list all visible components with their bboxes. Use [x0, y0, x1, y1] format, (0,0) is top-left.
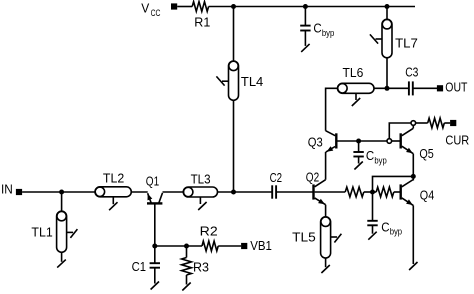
transistor Q5 — [401, 128, 434, 161]
node open circle Q5 collector — [411, 121, 416, 126]
svg-text:C1: C1 — [132, 259, 146, 274]
svg-text:IN: IN — [1, 182, 13, 197]
svg-text:C: C — [381, 219, 389, 234]
wire TL2 to Q1 emitter — [131, 191, 147, 193]
svg-text:byp: byp — [390, 227, 402, 238]
svg-text:TL2: TL2 — [103, 170, 124, 185]
wire Q5 collector up to circle — [412, 125, 414, 128]
transistor Q4 — [401, 180, 434, 206]
wire Q5 emitter down to Q4 collector — [412, 154, 414, 181]
wire diode loop collector to base — [389, 123, 411, 139]
svg-text:TL1: TL1 — [31, 225, 52, 240]
wire TL7 down to output row — [386, 58, 388, 89]
capacitor C3 — [405, 64, 418, 95]
wire Rb2 to Q4 base — [394, 191, 401, 193]
resistor R1 — [192, 2, 210, 30]
wire Rb1 to midpoint node — [364, 191, 376, 193]
svg-text:byp: byp — [322, 28, 334, 39]
svg-text:byp: byp — [374, 156, 386, 167]
capacitor C2 — [270, 170, 282, 199]
wire R2 to VB1 — [218, 245, 241, 247]
node junction resistor midpoint — [370, 190, 375, 195]
node junction R3 top — [184, 244, 189, 249]
node junction top rail / TL7 — [385, 4, 390, 9]
svg-text:TL4: TL4 — [241, 74, 263, 89]
ground below R3 — [182, 275, 190, 291]
svg-text:OUT: OUT — [445, 80, 467, 95]
node OUT terminal — [437, 80, 468, 95]
transmission line TL5 — [292, 217, 341, 258]
transmission line TL3 — [183, 171, 217, 210]
transistor Q1 — [146, 174, 163, 246]
wire Q3 base to bias node — [337, 140, 387, 142]
resistor Rb1 — [345, 187, 364, 197]
ground below C1 — [151, 268, 159, 290]
wire TL4 down to main row — [233, 100, 235, 192]
node junction Q1 base / C1 — [152, 244, 157, 249]
wire rail down to TL4 — [233, 7, 235, 62]
svg-text:CC: CC — [151, 8, 161, 19]
node open circle Q5 base — [387, 139, 392, 144]
capacitor Cbyp1 — [300, 21, 334, 39]
transmission line TL6 — [338, 65, 375, 106]
wire rail down to TL7 — [386, 7, 388, 20]
wire Q5 base circle to Q5 — [392, 140, 401, 142]
svg-text:Q4: Q4 — [420, 188, 434, 203]
wire VCC to R1 — [177, 6, 192, 8]
node junction IN / TL1 — [59, 190, 64, 195]
ground below Cbyp2 — [354, 157, 362, 170]
wire Q2 base to Rb1 — [315, 191, 346, 193]
ground below Cbyp1 — [301, 31, 309, 52]
node junction Q5 emitter / Q4 collector / feedback — [411, 174, 416, 179]
wire down to TL1 — [61, 192, 63, 211]
svg-text:R1: R1 — [194, 14, 210, 29]
wire Q2 collector up to Q3 emitter — [325, 152, 327, 180]
capacitor Cbyp2 — [353, 141, 386, 167]
transistor Q3 — [308, 131, 337, 152]
wire top rail R1 to right end — [209, 6, 415, 8]
node junction Q3 base / Cbyp2 — [356, 139, 361, 144]
svg-text:TL6: TL6 — [343, 65, 364, 80]
svg-text:R2: R2 — [200, 224, 218, 239]
svg-text:C3: C3 — [405, 64, 418, 79]
resistor R3 — [182, 246, 209, 275]
wire Q2 emitter down to TL5 — [325, 205, 327, 217]
node junction top rail / TL4 — [231, 4, 236, 9]
svg-text:Q3: Q3 — [308, 134, 323, 149]
wire C2 to Q2 base — [276, 191, 313, 193]
node CUR terminal — [445, 120, 469, 147]
ground below TL5 — [321, 258, 329, 273]
wire IN to TL2 — [22, 191, 95, 193]
wire C3 to OUT — [413, 87, 437, 89]
svg-text:V: V — [141, 0, 149, 15]
svg-text:C2: C2 — [270, 170, 282, 185]
wire bias node to R2 — [155, 245, 202, 247]
wire Q4 emitter down to ground — [412, 205, 414, 264]
node VCC terminal — [141, 0, 177, 18]
wire rail down to Cbyp1 — [304, 7, 306, 26]
svg-text:Q1: Q1 — [146, 174, 159, 189]
svg-text:Q5: Q5 — [419, 146, 433, 161]
ground below Q4 — [409, 262, 417, 270]
svg-text:TL7: TL7 — [395, 35, 418, 50]
resistor Rb2 — [376, 187, 394, 197]
svg-text:Q2: Q2 — [306, 170, 319, 185]
wire Rcur to CUR — [444, 122, 450, 124]
node junction TL4 / main row — [231, 190, 236, 195]
transmission line TL1 — [31, 211, 77, 252]
node IN terminal — [1, 182, 22, 197]
wire TL6 left end to Q3 collector drop — [326, 88, 338, 130]
node VB1 terminal — [241, 238, 272, 253]
svg-text:TL3: TL3 — [191, 171, 211, 186]
transmission line TL4 — [216, 61, 263, 100]
capacitor Cbyp3 — [367, 192, 402, 238]
svg-text:R3: R3 — [193, 259, 209, 274]
wire Q5 collector circle to Rcur — [416, 122, 428, 124]
svg-text:C: C — [313, 21, 321, 36]
transmission line TL2 — [95, 170, 131, 210]
wire TL6 right end to C3 — [374, 87, 409, 89]
svg-text:C: C — [366, 148, 374, 163]
node junction top rail / Cbyp1 — [303, 4, 308, 9]
resistor R2 — [200, 224, 219, 251]
svg-text:TL5: TL5 — [292, 229, 316, 244]
resistor Rcur — [428, 118, 445, 128]
wire TL3 to C2 with junction from TL4 — [218, 191, 273, 193]
transistor Q2 — [306, 170, 326, 205]
svg-text:VB1: VB1 — [250, 238, 272, 253]
capacitor C1 — [132, 246, 160, 274]
ground below TL1 — [57, 252, 66, 267]
ground below Cbyp3 — [368, 225, 376, 239]
transmission line TL7 — [370, 19, 418, 58]
svg-text:CUR: CUR — [445, 132, 469, 147]
wire feedback loop to resistor midpoint — [373, 176, 414, 192]
node junction TL7 / TL6 / C3 — [385, 86, 390, 91]
wire Q1 collector to TL3 — [163, 191, 184, 193]
